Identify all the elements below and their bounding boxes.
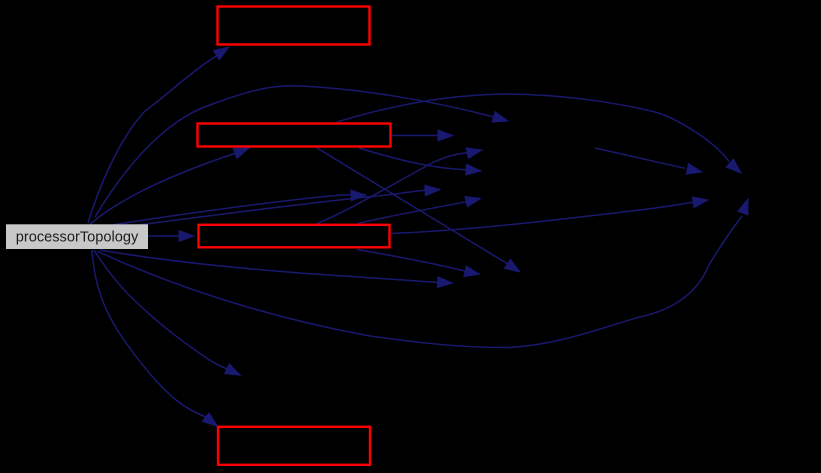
edge box3->nodeL	[357, 250, 480, 277]
edge processorTopology->nodeE	[105, 185, 440, 229]
edge hidden->nodeG	[595, 148, 702, 174]
edge box3->nodeF	[358, 197, 481, 224]
edge processorTopology->nodeM	[100, 250, 453, 288]
edge box2->nodeD	[359, 148, 481, 175]
edge box2->nodeB	[392, 130, 453, 141]
edge processorTopology->box4	[92, 250, 218, 426]
edge processorTopology->nodeJ	[97, 199, 748, 348]
edge processorTopology->nodeO	[94, 250, 240, 375]
edge box3->nodeI	[391, 197, 708, 234]
edge box2->nodeK	[317, 148, 520, 272]
edge processorTopology->nodeN	[100, 190, 366, 227]
node box1 (truncated, red)	[218, 7, 370, 45]
node box2 (truncated, red)	[198, 124, 391, 147]
edge processorTopology->box1	[88, 47, 229, 223]
svg-text:processorTopology: processorTopology	[16, 230, 139, 246]
edge box3->nodeC	[317, 148, 482, 224]
edge box2->nodeH	[337, 94, 741, 173]
edge processorTopology->box3	[148, 231, 194, 242]
node box4 (truncated, red)	[218, 427, 370, 465]
node processorTopology	[6, 224, 148, 249]
edge processorTopology->nodeA	[95, 86, 508, 217]
node box3 (truncated, red)	[199, 225, 390, 248]
edge processorTopology->box2	[90, 148, 249, 224]
